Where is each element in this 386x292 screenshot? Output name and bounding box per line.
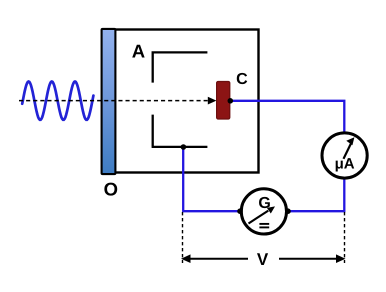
svg-text:G: G <box>258 195 270 212</box>
G needle <box>249 211 269 224</box>
svg-text:V: V <box>257 250 269 269</box>
junction dot at C <box>228 98 234 104</box>
light window bar O <box>102 29 116 174</box>
microammeter uA <box>322 133 367 178</box>
junction dot at A bottom <box>181 144 187 150</box>
anode A electrode <box>152 52 208 146</box>
V dimension arrow left segment <box>188 258 248 260</box>
svg-text:C: C <box>236 71 248 88</box>
incident light sine wave <box>22 82 93 120</box>
junction dot right of G <box>285 208 291 214</box>
svg-text:A: A <box>132 41 145 62</box>
G dc bars <box>259 223 269 225</box>
svg-text:μA: μA <box>335 156 355 173</box>
dashed extent line left <box>182 212 184 263</box>
dashed beam axis <box>19 100 210 102</box>
wire: microammeter to bottom-right corner <box>288 178 344 211</box>
dashed extent line right <box>344 212 346 263</box>
cathode C electrode <box>217 82 230 120</box>
svg-text:O: O <box>104 178 118 199</box>
wire: A electrode down to bottom rail <box>183 147 240 211</box>
vacuum tube box <box>108 30 259 173</box>
wire: C to microammeter (top run) <box>230 101 344 133</box>
junction dot left of G <box>237 208 243 214</box>
galvanometer G <box>241 189 286 234</box>
beam arrowhead <box>208 97 217 105</box>
uA needle <box>344 144 351 159</box>
V dimension arrow right segment <box>279 258 339 260</box>
